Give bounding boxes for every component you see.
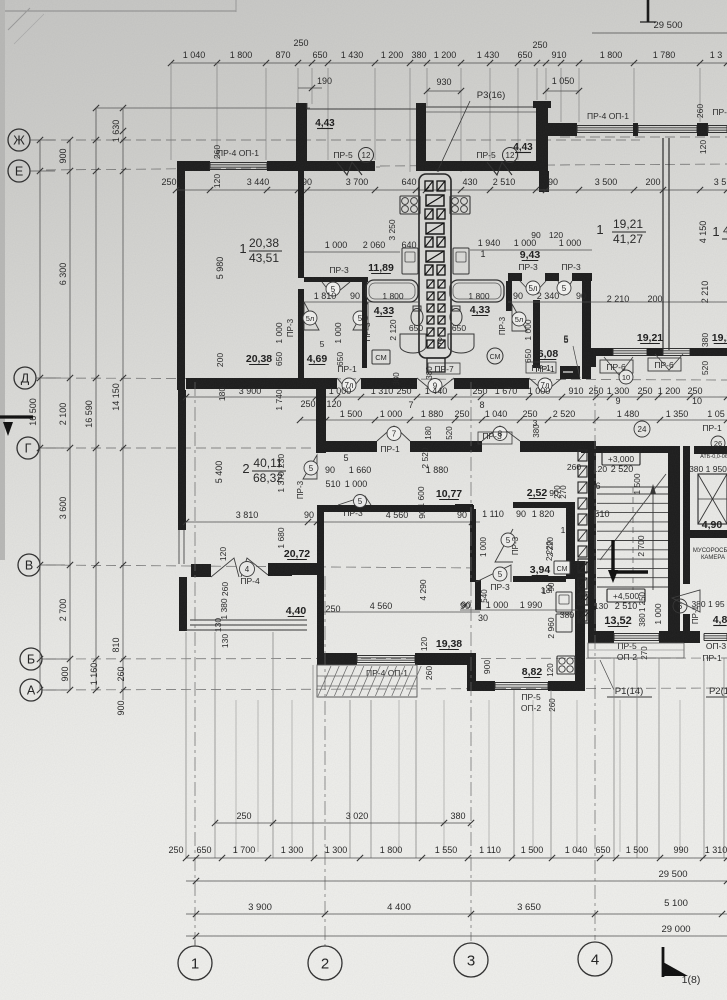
- wall room 19,38 top: [317, 505, 474, 512]
- walls closet 3,94: [455, 504, 473, 510]
- window ПР-4 ОП-1 top-right: [577, 125, 634, 127]
- wall top-left outer (axis E): [177, 161, 210, 171]
- wall left outer lower: [179, 577, 187, 631]
- axis circle Ж: [8, 129, 30, 151]
- bathtub left: [366, 280, 418, 302]
- window top-right 3: [708, 125, 727, 127]
- right wall entrance: [683, 446, 690, 584]
- wall stair right: [668, 446, 680, 631]
- wall D-axis segment 2: [361, 378, 417, 389]
- dashed line balcony: [317, 696, 417, 698]
- bottom extension lines: [185, 632, 187, 858]
- axis circle А: [20, 679, 42, 701]
- section cut mark left: [0, 415, 33, 418]
- sink left kitchen: [402, 248, 418, 274]
- left landing outline: [307, 108, 416, 110]
- axis Е dashed line: [46, 167, 380, 170]
- door ПР-5 (12) main zigzag: [487, 162, 512, 175]
- wall left outer mid: [178, 390, 186, 530]
- vent shaft tail: [427, 358, 445, 372]
- axis Г dashed line: [46, 447, 320, 449]
- wall left thin window zone: [178, 530, 180, 564]
- axis circle 2: [308, 946, 342, 980]
- wall B-axis with door ПР-4: [191, 564, 211, 577]
- scan edge top line: [0, 10, 236, 12]
- lower area faint verticals: [235, 700, 237, 852]
- wall 19,38 left: [317, 505, 324, 660]
- wall top-right pier: [697, 123, 708, 136]
- wall D-axis segment 3: [454, 378, 529, 389]
- bathtub right: [450, 280, 504, 302]
- chain row below D wall: [186, 396, 727, 398]
- washbasin left: [400, 334, 426, 353]
- axis Б dashed line: [46, 658, 727, 659]
- top chain extension lines: [170, 63, 172, 160]
- axis В dashed line: [46, 565, 480, 568]
- wall stair left: [588, 453, 596, 631]
- left chain ticks: [37, 137, 43, 143]
- wall E under left landing: [307, 161, 375, 171]
- toilet left: [411, 309, 423, 326]
- wall segment E: [267, 161, 298, 171]
- axis circle 4: [578, 942, 612, 976]
- bottom total 29 500: [186, 880, 727, 882]
- axis 4 dash-dot line: [594, 385, 596, 940]
- stair up arrow: [652, 489, 654, 590]
- wall room1 right partition: [298, 171, 304, 278]
- door (5) mid: [353, 302, 368, 330]
- sub-chain 250 3020 380: [215, 822, 471, 824]
- top chain ticks: [168, 60, 174, 66]
- porch mid stub wall: [416, 103, 426, 171]
- party wall right rooms: [662, 138, 664, 350]
- wall step right of 19,38: [467, 653, 476, 685]
- axis circle Д: [14, 367, 36, 389]
- door (5) closet lower: [476, 565, 511, 582]
- wall kitchen right vertical: [575, 561, 585, 690]
- door ПР-5 (12) left zigzag: [337, 162, 362, 175]
- porch left stub wall: [296, 103, 307, 171]
- wall E under main landing: [426, 161, 536, 171]
- axis А dashed line: [46, 688, 727, 690]
- axis circle Б: [20, 648, 42, 670]
- top dimension chain line: [171, 62, 727, 64]
- wall B right pier: [268, 563, 292, 576]
- wall 8,82 bottom: [467, 681, 495, 691]
- stair black L arrow: [611, 540, 614, 576]
- bottom chain row 3: [186, 913, 727, 915]
- wall top-right mullion: [633, 123, 638, 136]
- door ПР-1 (7л) mid: [529, 378, 562, 392]
- right window glazing X: [698, 474, 727, 524]
- bottom right section mark: [662, 947, 665, 977]
- door ПР-3 (5) right bath2: [558, 281, 572, 295]
- door ПР-7 (9): [417, 378, 454, 393]
- level box +4,500: [607, 589, 645, 602]
- wall closet bottom: [513, 576, 566, 582]
- chain row 3810: [186, 521, 480, 523]
- chain row under wall E: [176, 189, 727, 191]
- sub dim 1 050: [546, 90, 579, 92]
- axis circle 1: [178, 946, 212, 980]
- stove left kitchen: [400, 196, 420, 214]
- dims above hall door: [304, 251, 400, 253]
- stair treads: [597, 493, 668, 495]
- wall corridor segment 2: [410, 441, 482, 452]
- door ПР-3 (5) room2: [303, 455, 317, 479]
- door 5л lower: [512, 304, 527, 331]
- СМ box right: [554, 561, 570, 574]
- lobby bottom double wall: [190, 619, 307, 621]
- kitchen stove 8,82: [557, 656, 575, 674]
- stove right kitchen: [450, 196, 470, 214]
- window ПР-6 (10) first: [613, 348, 647, 350]
- sub dim 930: [427, 90, 461, 92]
- vent shaft outline: [419, 174, 451, 358]
- vent shaft lower boxes: [427, 280, 434, 288]
- СМ box left apt: [372, 350, 390, 364]
- kitchen sink 8,82: [556, 592, 572, 612]
- window ОП-3 bottom right: [704, 633, 727, 635]
- wall top-right (axis Ж) segment: [546, 123, 577, 136]
- stairwell shaft boxes: [578, 450, 587, 461]
- wall D-axis right end: [690, 348, 727, 356]
- wall D-axis jog up: [589, 348, 596, 367]
- axis circle В: [18, 554, 40, 576]
- porch right stub wall: [536, 101, 548, 171]
- scan corner diagonals top-left: [8, 8, 30, 30]
- chain 90 1000 1990: [460, 609, 585, 611]
- kitchen counter 8,82: [556, 614, 572, 632]
- wall 19,38 bottom left: [317, 653, 357, 665]
- hall wall with door ПР-3 (5): [304, 277, 368, 282]
- main landing outline: [426, 106, 536, 108]
- wall D-axis left segment: [186, 378, 337, 389]
- porch below stair: [588, 643, 684, 658]
- axis 2 dash-dot line: [324, 576, 326, 946]
- dims above right bath: [470, 249, 592, 251]
- dim row 1 810 90: [304, 301, 418, 303]
- door (5) closet upper: [495, 529, 513, 562]
- wall bath-corridor partition left: [362, 282, 367, 368]
- wall 19,38 right vertical: [470, 509, 476, 582]
- chain 90 2340 90 row: [508, 301, 727, 303]
- door 6 circle right: [673, 599, 687, 613]
- scan left edge band: [0, 0, 5, 560]
- washbasin right: [448, 334, 474, 353]
- washing boxes: [578, 559, 591, 572]
- door 5л left bath: [304, 302, 319, 330]
- toilet right: [450, 309, 462, 326]
- window ПР-4 ОП-1 top-left: [210, 162, 267, 164]
- vent shaft boxes: [425, 181, 433, 191]
- stair center line: [632, 487, 634, 590]
- door ПР-3 5л right bath: [520, 281, 546, 295]
- door ПР-1 (7) corridor: [377, 426, 410, 441]
- wall right bath right: [582, 277, 591, 379]
- axis Ж dashed line right part: [560, 136, 727, 138]
- wall D-axis pier after door: [560, 366, 580, 379]
- axis Е dashed line right: [380, 164, 727, 166]
- stair bottom wall far right: [684, 631, 700, 643]
- sink right kitchen: [453, 248, 469, 274]
- wall right bath inner: [533, 300, 540, 368]
- top-right total 29 500: [592, 32, 727, 34]
- wall D-axis right band: [596, 348, 613, 356]
- axis 1 dash-dot line: [194, 382, 196, 946]
- chain row 4,40: [324, 611, 480, 613]
- bottom chain row 1: [186, 857, 727, 859]
- left dimension chain lines: [39, 140, 41, 690]
- top-right corner mark: [647, 0, 650, 22]
- axis circle 3: [454, 943, 488, 977]
- door opening 19,38 top: [338, 496, 371, 505]
- stair bottom wall: [588, 631, 614, 643]
- window ПР-4 ОП-1 top-right second: [638, 125, 697, 127]
- wall corridor segment 1: [318, 441, 377, 452]
- balcony hatch left: [317, 665, 417, 697]
- bottom total 29 000: [186, 935, 727, 937]
- wall stair top: [581, 441, 596, 453]
- axis 3 dash-dot line: [470, 382, 472, 941]
- window ПР-4 ОП-1 balcony: [357, 655, 415, 657]
- window ПР-5 ОП-2 kitchen: [495, 682, 548, 684]
- wall 19,38 bottom right: [415, 653, 476, 665]
- wall D-axis pier 2: [647, 348, 663, 356]
- wall right bath left vertical: [506, 281, 512, 311]
- wall left outer upper: [177, 161, 185, 390]
- axis Ж dashed line: [46, 139, 640, 141]
- wall right bath top: [508, 273, 522, 281]
- left top extension: [96, 107, 310, 109]
- wall 8,82 bottom right: [548, 681, 585, 691]
- chain row 2 below D wall: [300, 419, 727, 421]
- wall B thick piece: [292, 563, 320, 575]
- door ПР-1 (7л) left: [337, 378, 361, 392]
- sub dim 190: [298, 87, 322, 89]
- window ПР-5 ОП-2 stair: [614, 633, 659, 635]
- level box +3,000: [602, 452, 640, 465]
- stair break diagonal: [600, 474, 666, 560]
- axis circle Г: [17, 437, 39, 459]
- wall corridor segment 3: [520, 441, 581, 452]
- window ПР-6 second: [663, 348, 690, 350]
- axis circle Е: [8, 160, 30, 182]
- СМ circle right apt: [487, 348, 503, 364]
- stair bottom wall right: [659, 631, 684, 643]
- axis Д dashed line: [46, 378, 727, 380]
- wall vertical junction: [316, 378, 326, 453]
- door ПР-3 (8) corridor: [482, 426, 520, 441]
